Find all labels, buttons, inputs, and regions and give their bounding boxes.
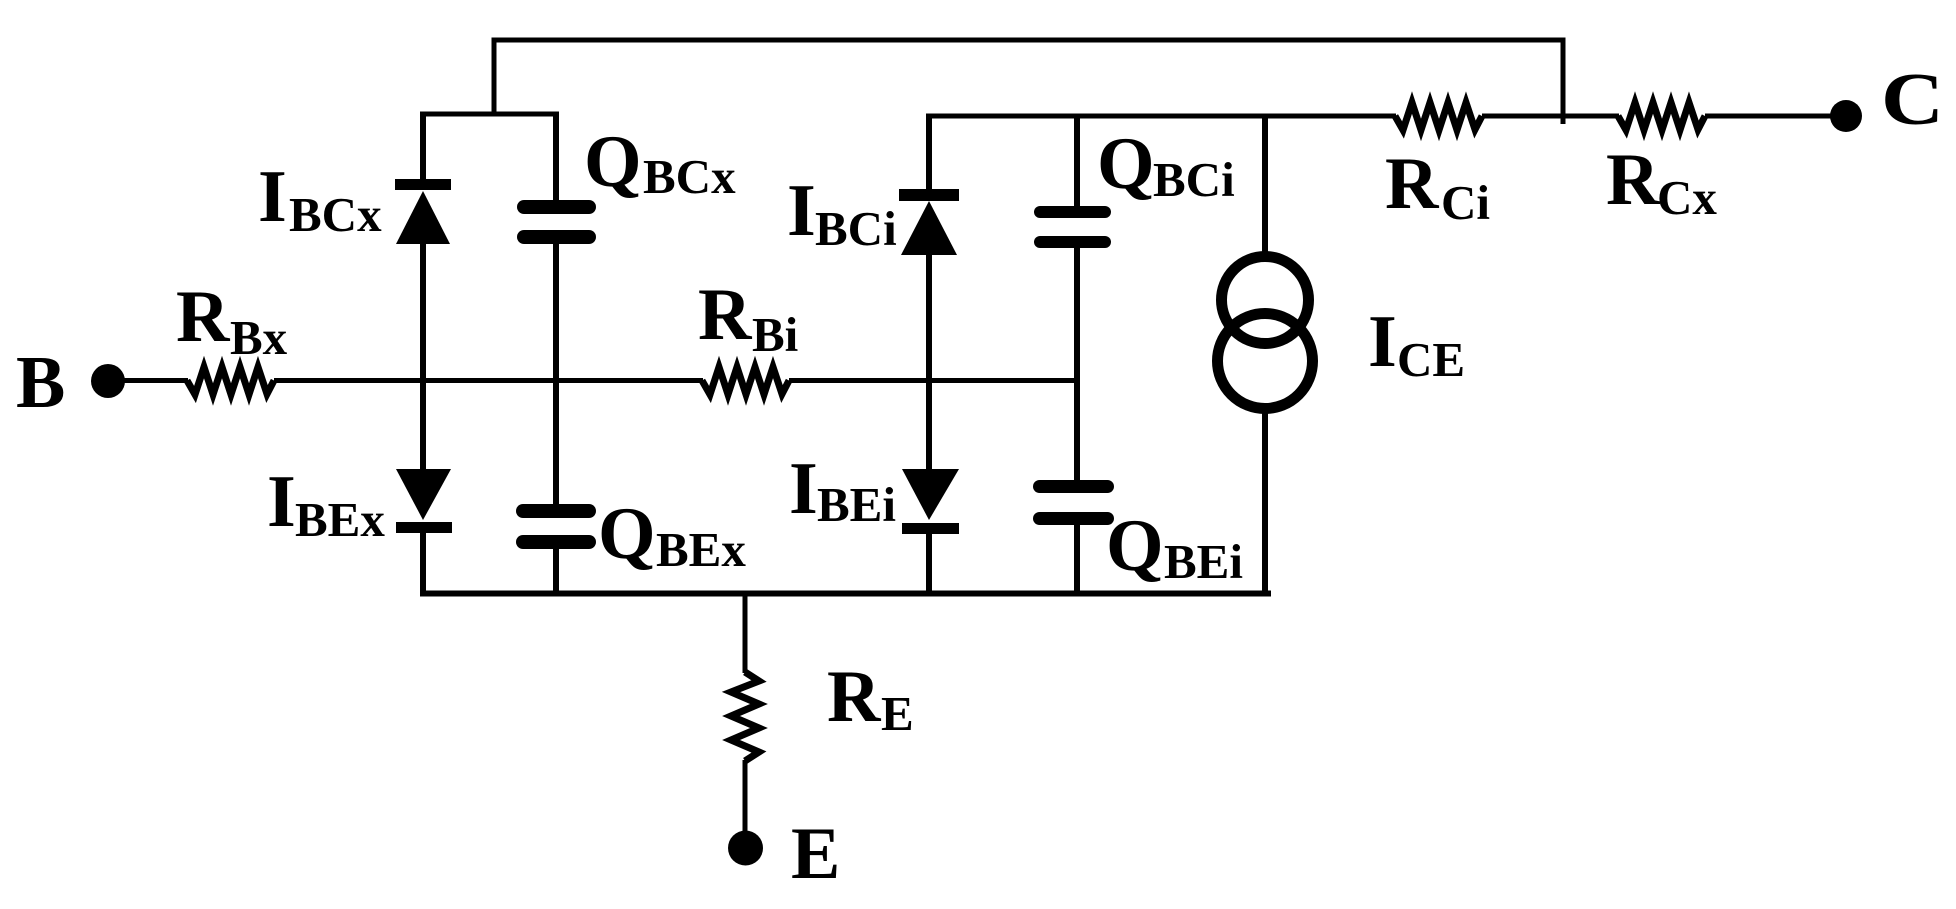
label R_Ci value xyxy=(1385,143,1490,230)
svg-text:BEx: BEx xyxy=(295,492,385,547)
current source I_CE (two overlapped circles) xyxy=(1218,257,1313,409)
svg-text:BEx: BEx xyxy=(656,522,746,577)
wire I_BCx branch top vertical xyxy=(420,112,426,181)
label I_BCx value xyxy=(258,156,382,242)
wire collector net from branch corner to R_Ci xyxy=(927,114,1397,119)
wire I_BCx to I_BEx vertical xyxy=(420,243,426,470)
diode I_BCi (bar and up triangle) xyxy=(899,189,959,255)
label I_BEi value xyxy=(789,448,896,532)
label I_BCi value xyxy=(787,170,897,256)
capacitor Q_BCi plates xyxy=(1034,206,1111,248)
svg-text:Cx: Cx xyxy=(1657,170,1717,225)
node E terminal dot xyxy=(728,831,763,866)
svg-text:Q: Q xyxy=(1097,123,1155,205)
wire R_Ci to R_Cx xyxy=(1482,114,1619,119)
svg-text:I: I xyxy=(1368,301,1397,383)
svg-text:C: C xyxy=(1881,59,1944,141)
label I_CE value xyxy=(1368,301,1465,387)
wire I_CE source bottom vertical xyxy=(1262,410,1268,596)
svg-text:CE: CE xyxy=(1397,332,1465,387)
svg-text:E: E xyxy=(791,813,840,895)
capacitor Q_BEi plates xyxy=(1033,480,1114,525)
label R_E value xyxy=(827,656,914,741)
diode I_BCx (bar and up triangle) xyxy=(395,179,451,244)
svg-text:Ci: Ci xyxy=(1441,175,1490,230)
wire Q_BCx to Q_BEx vertical xyxy=(553,243,559,506)
resistor R_Bx zigzag xyxy=(187,367,274,395)
svg-text:Bx: Bx xyxy=(230,310,288,365)
wire Q_BCx branch top vertical xyxy=(553,112,559,203)
wire I_BEi to bottom rail vertical xyxy=(926,533,932,596)
svg-text:I: I xyxy=(787,170,816,252)
svg-text:Bi: Bi xyxy=(752,307,798,362)
wire R_Bi to internal base node at Q_BCi branch xyxy=(789,378,1080,383)
svg-text:BCi: BCi xyxy=(1153,152,1235,207)
resistor R_E vertical zigzag xyxy=(731,672,759,761)
wire Q_BCi branch top vertical xyxy=(1074,114,1080,209)
capacitor Q_BCx plates xyxy=(517,200,596,244)
label R_Bx value xyxy=(176,276,288,365)
wire R_E to E terminal xyxy=(743,760,748,835)
wire B dot to R_Bx xyxy=(108,378,188,383)
wire I_CE source top vertical xyxy=(1262,114,1268,256)
svg-text:I: I xyxy=(258,156,287,238)
svg-text:BCx: BCx xyxy=(643,149,736,204)
label I_BEx value xyxy=(267,461,385,547)
svg-text:B: B xyxy=(16,342,65,424)
label R_Bi value xyxy=(698,274,798,362)
svg-text:Q: Q xyxy=(1106,505,1164,587)
svg-text:R: R xyxy=(1385,143,1440,225)
svg-text:BEi: BEi xyxy=(1164,534,1243,589)
svg-text:R: R xyxy=(827,656,882,738)
wire Q_BCi to Q_BEi vertical xyxy=(1074,247,1080,482)
wire Q_BEx to bottom rail vertical xyxy=(553,548,559,596)
resistor R_Ci zigzag xyxy=(1395,103,1482,131)
wire bottom emitter rail xyxy=(420,591,1271,597)
diode I_BEi (down triangle and bar) xyxy=(902,469,959,534)
label Q_BEi value xyxy=(1106,505,1243,589)
svg-text:R: R xyxy=(1606,139,1661,221)
wire bottom rail to R_E xyxy=(743,593,748,673)
wire I_BCi to I_BEi vertical xyxy=(926,254,932,470)
svg-text:I: I xyxy=(789,448,818,530)
svg-text:BCi: BCi xyxy=(815,201,897,256)
svg-text:I: I xyxy=(267,461,296,543)
wire R_Cx to C terminal xyxy=(1705,114,1840,119)
diode I_BEx (down triangle and bar) xyxy=(396,469,452,533)
svg-text:R: R xyxy=(176,276,231,358)
wire I_BCi branch top vertical xyxy=(926,114,932,191)
svg-text:E: E xyxy=(881,686,914,741)
label Q_BCx value xyxy=(584,121,736,204)
wire I_BEx to bottom rail vertical xyxy=(420,532,426,596)
resistor R_Bi zigzag xyxy=(702,367,789,395)
node B terminal dot xyxy=(91,364,125,398)
svg-text:BEi: BEi xyxy=(817,477,896,532)
capacitor Q_BEx plates xyxy=(516,504,596,549)
wire Q_BEi to bottom rail vertical xyxy=(1074,524,1080,596)
wire top rail from Q_BCx bracket riser to collector riser xyxy=(494,40,1563,124)
wire R_Bx to R_Bi xyxy=(274,378,703,383)
resistor R_Cx zigzag xyxy=(1618,103,1705,131)
label Q_BEx value xyxy=(598,493,746,577)
svg-text:Q: Q xyxy=(598,493,656,575)
wire bracket joining I_BCx and Q_BCx branch tops xyxy=(421,112,558,117)
svg-text:Q: Q xyxy=(584,121,642,203)
node C terminal dot xyxy=(1830,100,1862,132)
svg-text:R: R xyxy=(698,274,753,356)
label R_Cx value xyxy=(1606,139,1717,225)
svg-text:BCx: BCx xyxy=(289,187,382,242)
label Q_BCi value xyxy=(1097,123,1235,207)
